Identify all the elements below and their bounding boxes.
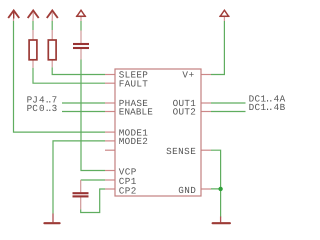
supply arrow P2 [28,11,39,19]
wire net V+ to supply triangle [211,21,224,75]
pins resistor R1 [32,19,34,68]
svg-text:PC0..3: PC0..3 [27,103,58,114]
supply triangle P4 (VCP rail) [76,10,86,16]
ground GND1 [44,222,59,224]
wire net OUT1 [211,102,246,104]
capacitor C2 [73,193,89,196]
svg-text:GND: GND [178,185,196,196]
pins capacitor C2 [80,180,82,209]
wire net FAULT from R1 [33,68,105,83]
svg-text:SENSE: SENSE [166,146,196,157]
wire net OUT2 [211,111,246,113]
pin supply arrow P1 [13,19,15,22]
svg-text:CP2: CP2 [119,186,137,197]
resistor R1 [29,40,37,60]
pin stubs left of U1 [105,75,115,190]
resistor R2 [48,40,56,60]
wire arrow3 to R2 top [51,21,53,30]
pin ground GND2 [220,217,222,223]
wire arrow2 to R1 top [32,21,34,30]
junction node GND/SENSE [218,187,222,191]
capacitor C1 [73,44,89,48]
pin stubs right of U1 [201,75,211,190]
wire net ENABLE [62,111,105,113]
pin supply triangle P5 [223,17,225,21]
svg-text:MODE2: MODE2 [119,136,148,147]
supply triangle P5 (V+ rail) [219,10,229,16]
svg-text:DC1..4B: DC1..4B [249,102,286,113]
wire net SENSE to GND [211,150,221,189]
wire net CP2 [81,189,105,213]
wire net PHASE [62,102,105,104]
ground GND2 [213,222,230,224]
wire net CP1 [81,179,105,181]
pins resistor R2 [51,19,53,68]
svg-text:FAULT: FAULT [119,78,148,89]
IC U1 body [115,69,201,196]
pin ground GND1 [52,214,54,223]
wire net VCP from C1 bottom [81,60,105,171]
supply arrow P1 [8,11,19,19]
wire net SLEEP from R2 [52,67,105,74]
pins capacitor C1 [80,17,82,60]
wire supply triangle to C1 [80,21,82,31]
svg-text:ENABLE: ENABLE [119,107,153,118]
wire net MODE1 from supply arrow P1 [14,21,106,132]
wire net GND to ground symbol [211,189,221,218]
svg-text:OUT2: OUT2 [173,107,196,118]
supply arrow P3 [47,11,58,19]
svg-text:V+: V+ [182,70,194,81]
wire net MODE2 to ground [53,141,105,214]
